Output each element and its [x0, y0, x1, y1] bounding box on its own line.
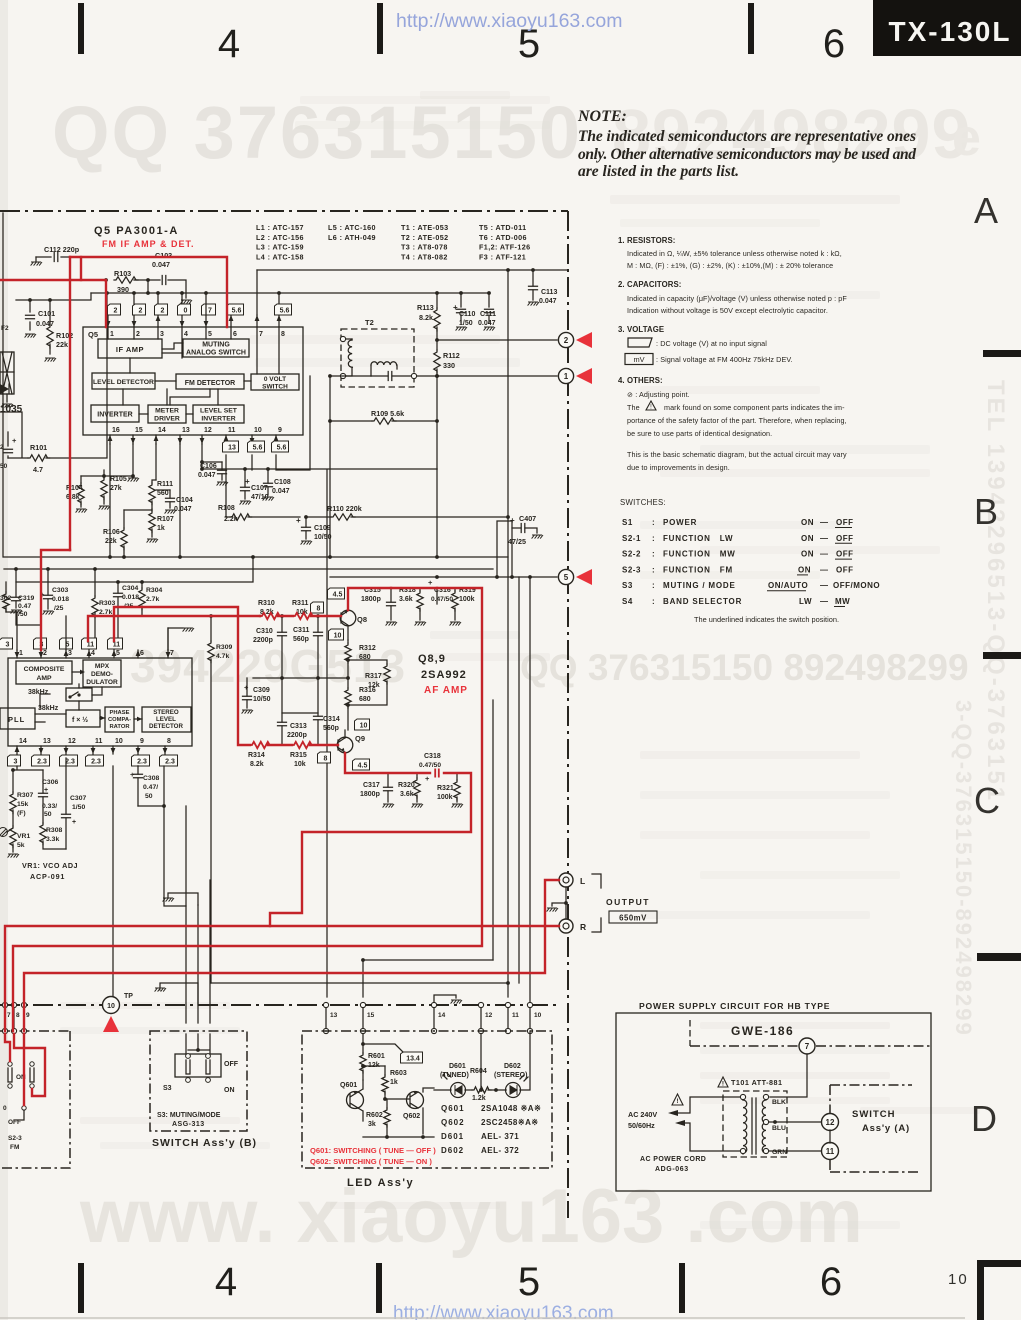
svg-text:BLU: BLU [772, 1125, 786, 1132]
Q5 voltage boxes top [108, 304, 121, 315]
stereo IC outline [8, 658, 192, 746]
functional box f x 1/2 [66, 710, 100, 727]
svg-text:0.047: 0.047 [272, 488, 290, 495]
svg-text:C318: C318 [424, 753, 441, 760]
red wire: input feed y280 [0, 280, 106, 327]
svg-text:Indication without voltage is: Indication without voltage is 50V except… [627, 306, 828, 315]
svg-text:/25: /25 [54, 605, 64, 612]
svg-text:f × ½: f × ½ [72, 716, 88, 724]
T2 primary coil [348, 340, 352, 367]
op-amp U-Q5 PA3001-A IC outline [83, 327, 303, 435]
svg-text:10: 10 [948, 1271, 969, 1288]
primary leads + AC arrows [678, 1097, 740, 1151]
svg-text:5.6: 5.6 [232, 307, 242, 314]
node connector row2 [323, 1028, 328, 1033]
svg-text:R601: R601 [368, 1053, 385, 1060]
svg-text:—: — [820, 565, 829, 574]
svg-text:D601: D601 [449, 1063, 466, 1070]
svg-text:0.47/: 0.47/ [143, 784, 158, 791]
svg-text:GRN: GRN [772, 1149, 787, 1156]
svg-text:10k: 10k [294, 761, 306, 768]
functional box 0 VOLT SWITCH [251, 374, 299, 390]
svg-text:+: + [72, 819, 76, 826]
functional box INVERTER [91, 405, 139, 422]
svg-text:8: 8 [16, 1012, 20, 1019]
wire bus y557 [4, 556, 508, 558]
svg-text:C313: C313 [290, 723, 307, 730]
svg-text:DRIVER: DRIVER [154, 416, 180, 423]
svg-text:TP: TP [124, 993, 133, 1000]
wire conn12 drop into LED [480, 1034, 482, 1090]
wire T2 to border [346, 375, 371, 377]
svg-text:R307: R307 [17, 792, 33, 799]
svg-text:L6 : ATH-049: L6 : ATH-049 [328, 233, 376, 242]
svg-text:2200p: 2200p [287, 732, 307, 739]
Q5 internal connection wires [108, 327, 279, 374]
svg-text:0.047: 0.047 [478, 320, 496, 327]
svg-text:6: 6 [820, 1260, 842, 1304]
wire left page-cut vertical [2, 213, 4, 557]
svg-text:R311: R311 [292, 600, 308, 607]
connector row2 dash-dot y1031 left [0, 1030, 70, 1032]
svg-text:R304: R304 [146, 587, 162, 594]
svg-text:12: 12 [485, 1012, 493, 1019]
wire conn11 stub [507, 983, 509, 997]
svg-text:Q601: SWITCHING ( TUNE — OFF ): Q601: SWITCHING ( TUNE — OFF ) [310, 1146, 436, 1155]
wire left entry y300 [16, 293, 91, 300]
svg-text:FM IF AMP & DET.: FM IF AMP & DET. [102, 239, 195, 249]
svg-text:16: 16 [112, 427, 120, 434]
svg-text:T3 : AT8-078: T3 : AT8-078 [401, 243, 448, 252]
bus y678 [253, 677, 348, 679]
wire x493 rise [492, 700, 494, 960]
svg-text:0.047: 0.047 [174, 506, 192, 513]
svg-text:1800p: 1800p [361, 596, 381, 603]
svg-text:2.7k: 2.7k [146, 596, 159, 603]
node connector 14 row1 [431, 1002, 436, 1007]
svg-text:Q9: Q9 [355, 734, 365, 743]
wire conn15 stub [362, 960, 364, 997]
node circle 11 [822, 1143, 839, 1160]
functional box COMPOSITE AMP [16, 661, 72, 684]
svg-text:www. xiaoyu163 .com: www. xiaoyu163 .com [79, 1174, 863, 1259]
svg-text:R: R [580, 922, 586, 932]
svg-text:!: ! [722, 1081, 724, 1088]
svg-text:27k: 27k [110, 485, 122, 492]
svg-text:DEMO-: DEMO- [91, 671, 113, 678]
svg-text:: DC voltage (V) at no input s: : DC voltage (V) at no input signal [656, 339, 767, 348]
wire conn18 drop [209, 880, 211, 1023]
wire pin12 drop [201, 444, 203, 469]
svg-text:560p: 560p [293, 636, 309, 643]
svg-text:C: C [974, 780, 1000, 821]
svg-text:11: 11 [95, 738, 103, 745]
red arrow at terminal 5 [576, 569, 592, 585]
svg-text:only. Other alternative semico: only. Other alternative semiconductors m… [578, 146, 916, 163]
svg-text:T2: T2 [365, 318, 374, 327]
transformer T101 dashed box [723, 1091, 787, 1157]
svg-text:BAND SELECTOR: BAND SELECTOR [663, 597, 742, 606]
bracket L [592, 874, 601, 888]
voltage box 4.5 at Q9 emitter [353, 759, 370, 770]
svg-text:1/50: 1/50 [72, 804, 85, 811]
svg-text:0.047: 0.047 [539, 298, 557, 305]
wire BLU to circle 12 [769, 1121, 821, 1123]
red triangle at TP [103, 1016, 119, 1032]
node terminal 5 [558, 569, 573, 584]
wire pin9 drop to C308 [137, 765, 139, 767]
svg-text:mV: mV [633, 355, 644, 364]
transformer T2 dashed box [341, 329, 414, 387]
svg-text:F1,2: ATF-126: F1,2: ATF-126 [479, 243, 531, 252]
svg-text:5: 5 [518, 1260, 540, 1304]
wire terminal5 row y577 [330, 576, 557, 578]
svg-text:OFF: OFF [836, 550, 854, 559]
svg-text:TX-130L: TX-130L [889, 16, 1012, 47]
svg-text:0.47/50: 0.47/50 [431, 596, 453, 603]
svg-text:TEL 13942296513-QQ-3763151: TEL 13942296513-QQ-3763151 [982, 380, 1009, 803]
red wire: R310 R311 inline [259, 615, 261, 617]
svg-text:C311: C311 [293, 627, 309, 634]
svg-text:Q8: Q8 [357, 615, 367, 624]
svg-text:(F): (F) [17, 810, 26, 817]
svg-text:8: 8 [167, 738, 171, 745]
svg-text::: : [652, 597, 655, 606]
svg-text:Q601: Q601 [340, 1082, 357, 1089]
svg-text:R321: R321 [437, 785, 454, 792]
ground pin15b [128, 478, 139, 482]
svg-text:VR1: VCO ADJ: VR1: VCO ADJ [22, 861, 78, 870]
svg-text:4: 4 [215, 1260, 237, 1304]
red wire: S2-3 weave upper [14, 1034, 45, 1096]
wire pin16 drop [109, 444, 111, 557]
transistor Q9 2SA992 [337, 737, 353, 753]
svg-text:MUTING: MUTING [202, 342, 230, 349]
svg-text:10/50: 10/50 [253, 696, 271, 703]
T101 core [752, 1098, 756, 1154]
svg-text:2: 2 [114, 307, 118, 314]
top registration ticks [78, 3, 84, 54]
output jack L [559, 873, 573, 887]
svg-text:10: 10 [254, 427, 262, 434]
svg-text:D602: D602 [441, 1146, 464, 1155]
svg-text:1: 1 [110, 331, 114, 338]
adjusting point symbol [0, 828, 8, 837]
svg-text:due to improvements in design.: due to improvements in design. [627, 463, 730, 472]
svg-text:330: 330 [443, 361, 455, 370]
red wire: mpx out pin4 to Q8 base [88, 616, 341, 641]
wire pin11 drop [225, 455, 227, 517]
svg-text:LEVEL SET: LEVEL SET [200, 408, 238, 415]
red wire: x70 vertical [69, 257, 71, 550]
svg-text:7: 7 [805, 1042, 810, 1051]
wire circle12 to circle11 [829, 1130, 831, 1143]
svg-text:L2 : ATC-156: L2 : ATC-156 [256, 233, 304, 242]
stereo voltage boxes bottom [8, 755, 21, 766]
functional box METER DRIVER [148, 405, 186, 423]
svg-text:38kHz: 38kHz [38, 705, 59, 712]
svg-text::: : [652, 550, 655, 559]
svg-text:2.3: 2.3 [91, 758, 101, 765]
svg-text:4.5: 4.5 [333, 591, 343, 598]
svg-text:IF AMP: IF AMP [116, 345, 144, 354]
svg-text:C109: C109 [314, 525, 331, 532]
transistor Q601 [347, 1092, 364, 1109]
svg-text:C314: C314 [323, 716, 340, 723]
svg-text::: : [652, 534, 655, 543]
svg-text:R111: R111 [157, 481, 173, 488]
svg-text:3.3k: 3.3k [46, 836, 59, 843]
node connector 15 row1 [360, 1002, 365, 1007]
red wire: S2-3 weave lower [5, 1034, 10, 1061]
svg-text:6: 6 [823, 22, 845, 66]
LED assy bottom wire [363, 1136, 434, 1138]
border dash-dot right vertical [567, 211, 569, 1218]
svg-text::: : [652, 581, 655, 590]
svg-text:4: 4 [184, 331, 188, 338]
svg-text:—: — [820, 597, 829, 606]
svg-text:9: 9 [140, 738, 144, 745]
wire pin feeds from bus [134, 270, 279, 315]
svg-text:5: 5 [208, 331, 212, 338]
svg-text:13: 13 [182, 427, 190, 434]
svg-text:T101 ATT-881: T101 ATT-881 [731, 1078, 783, 1087]
red switching labels [307, 1143, 457, 1169]
svg-text:47/25: 47/25 [508, 537, 526, 546]
functional box PHASE COMPARATOR [105, 707, 134, 732]
svg-text:1.2k: 1.2k [472, 1095, 486, 1102]
svg-text:10: 10 [360, 722, 368, 729]
svg-text:15: 15 [135, 427, 143, 434]
svg-text:Q601: Q601 [441, 1104, 465, 1113]
wire R104/R105 tie [81, 475, 133, 477]
svg-text:1k: 1k [157, 525, 165, 532]
warning triangle T101 [718, 1077, 728, 1087]
svg-text:R112: R112 [443, 351, 460, 360]
svg-text:560: 560 [157, 490, 169, 497]
svg-text:0.047: 0.047 [36, 319, 54, 328]
svg-text:100k: 100k [459, 596, 475, 603]
svg-text:POWER: POWER [663, 518, 697, 527]
functional box STEREO LEVEL DETECTOR [142, 707, 191, 732]
left edge IF transformer fragment [0, 352, 14, 394]
T2 secondary coil [371, 362, 397, 365]
svg-text:8.2k: 8.2k [250, 761, 264, 768]
svg-text:8: 8 [324, 755, 328, 762]
svg-text:OFF: OFF [836, 565, 854, 574]
svg-text:Q5: Q5 [88, 330, 98, 339]
wire pin10 drop [251, 455, 253, 470]
node connector row2 [431, 1028, 436, 1033]
svg-text:3: 3 [68, 650, 72, 657]
functional box MUTING ANALOG SWITCH [183, 339, 249, 357]
svg-text:R310: R310 [258, 600, 275, 607]
svg-text:be sure to use parts of identi: be sure to use parts of identical design… [627, 429, 772, 438]
node connector row2 [360, 1028, 365, 1033]
node connector 10 row1 [527, 1002, 532, 1007]
svg-text:2: 2 [136, 331, 140, 338]
svg-text:4: 4 [91, 650, 95, 657]
svg-text:PLL: PLL [8, 715, 25, 724]
svg-text:11: 11 [228, 427, 236, 434]
svg-text:MPX: MPX [95, 663, 110, 670]
svg-text:OUTPUT: OUTPUT [606, 897, 650, 907]
svg-text:This is the basic schematic di: This is the basic schematic diagram, but… [627, 450, 847, 459]
svg-text:5.6: 5.6 [253, 444, 263, 451]
wire C112 ground stub [35, 257, 37, 262]
node connector row2 [505, 1028, 510, 1033]
voltage box 4.5 at Q8 emitter [328, 588, 345, 599]
svg-text:Q602: Q602 [441, 1118, 465, 1127]
svg-text:4.7k: 4.7k [216, 653, 229, 660]
svg-text:50: 50 [0, 463, 8, 470]
svg-text:R107: R107 [157, 516, 174, 523]
svg-text:7: 7 [170, 650, 174, 657]
svg-text:R604: R604 [470, 1068, 487, 1075]
margin bar BC [983, 652, 1021, 659]
stereo voltage boxes top [0, 638, 13, 649]
left edge diode fragment [0, 384, 9, 394]
svg-text:C113: C113 [541, 289, 557, 296]
node connector row2 [11, 1028, 16, 1033]
node connector row2 [478, 1028, 483, 1033]
svg-text:SWITCH Ass'y (B): SWITCH Ass'y (B) [152, 1137, 257, 1149]
node connector row2 [21, 1028, 26, 1033]
ghost bleedthrough text [300, 96, 550, 104]
svg-text:mark found on some component p: mark found on some component parts indic… [664, 403, 845, 412]
switch S3 plunger right [206, 1060, 210, 1074]
svg-text:4.5: 4.5 [358, 762, 368, 769]
svg-text:portance of the safety factor: portance of the safety factor of the par… [627, 416, 847, 425]
svg-text:C308: C308 [143, 775, 159, 782]
svg-text::: : [652, 565, 655, 574]
svg-text:2: 2 [139, 307, 143, 314]
svg-text:R103: R103 [114, 269, 131, 278]
functional box MPX DEMODULATOR [83, 660, 121, 687]
svg-text:/50: /50 [18, 611, 28, 618]
svg-text:QQ 376315150 892498299: QQ 376315150 892498299 [520, 647, 969, 688]
svg-text:LW: LW [799, 597, 812, 606]
wire to terminal 2 [437, 339, 557, 341]
svg-text:POWER SUPPLY CIRCUIT FOR HB TY: POWER SUPPLY CIRCUIT FOR HB TYPE [639, 1001, 830, 1011]
ground above bus [159, 989, 161, 991]
svg-text:S4: S4 [622, 597, 633, 606]
svg-text:22k: 22k [56, 340, 68, 349]
svg-text:F3 : ATF-121: F3 : ATF-121 [479, 252, 526, 261]
svg-text:OFF: OFF [836, 534, 854, 543]
wire pin14 drop [155, 444, 157, 480]
svg-text:SWITCH: SWITCH [852, 1109, 895, 1120]
svg-text:10: 10 [334, 632, 342, 639]
red wire: Q8 emitter to L rail [13, 588, 482, 1031]
svg-text:(STEREO): (STEREO) [494, 1072, 527, 1079]
svg-text:R317: R317 [365, 673, 382, 680]
svg-text:PHASE: PHASE [110, 710, 130, 716]
svg-text:C303: C303 [52, 587, 68, 594]
svg-text:+: + [296, 516, 301, 525]
svg-text:8: 8 [281, 331, 285, 338]
svg-text:GWE-186: GWE-186 [731, 1024, 794, 1038]
warning triangle AC [672, 1094, 683, 1105]
svg-text:0: 0 [184, 307, 188, 314]
warning triangle in note [646, 401, 656, 410]
svg-text:S3: MUTING/MODE: S3: MUTING/MODE [157, 1112, 221, 1119]
border dash-dot top [0, 210, 568, 212]
svg-text:2SA992: 2SA992 [421, 669, 467, 681]
node connector 7 row1 [2, 1002, 7, 1007]
svg-text:1k: 1k [390, 1079, 398, 1086]
wire T2 left vertical [329, 376, 331, 421]
svg-text:S3: S3 [163, 1085, 172, 1092]
svg-text:FM: FM [10, 1144, 19, 1151]
red wire: C316 R319 stubs on rail [391, 587, 437, 589]
wire Q8 collector down [347, 626, 349, 640]
svg-text:FUNCTION LW: FUNCTION LW [663, 534, 733, 543]
label 650mV box [609, 911, 657, 923]
connector bus dash-dot y1005 [0, 1004, 556, 1006]
svg-text:4.7: 4.7 [33, 465, 43, 474]
wire bus y569 [4, 568, 493, 570]
functional box FM DETECTOR [176, 374, 244, 389]
dash-dot right of circle 7 [816, 1045, 931, 1047]
svg-text:5.6: 5.6 [277, 444, 287, 451]
svg-text:INVERTER: INVERTER [201, 416, 235, 423]
svg-text:2SA1048 ※A※: 2SA1048 ※A※ [481, 1104, 541, 1113]
svg-text:—: — [820, 581, 829, 590]
wire R109 row [330, 420, 437, 422]
voltage box 10 at Q9 collector [355, 719, 370, 730]
svg-text:2: 2 [564, 336, 569, 345]
svg-text:7: 7 [208, 307, 212, 314]
svg-text:38kHz: 38kHz [28, 689, 49, 696]
S3 plunger left [186, 1060, 190, 1074]
svg-text:Indicated in capacity (μF)/vol: Indicated in capacity (μF)/voltage (V) u… [627, 294, 847, 303]
red wire: R jack line [5, 926, 559, 1031]
svg-text:METER: METER [155, 408, 179, 415]
svg-text:50/60Hz: 50/60Hz [628, 1121, 655, 1130]
svg-text:3. VOLTAGE: 3. VOLTAGE [618, 325, 664, 334]
svg-text:2.3: 2.3 [137, 758, 147, 765]
svg-text:OFF: OFF [224, 1061, 239, 1068]
svg-text:5.6: 5.6 [280, 307, 290, 314]
wire conn13 long vertical [326, 470, 328, 997]
svg-text:10/50: 10/50 [314, 534, 332, 541]
node connector row2 [2, 1028, 7, 1033]
wire pin13 drop [179, 444, 181, 557]
margin bar CD [977, 953, 1021, 961]
svg-text:13: 13 [330, 1012, 338, 1019]
svg-text:3: 3 [14, 758, 18, 765]
T2 tuning capacitor [388, 372, 392, 381]
wire y458 R101 row [8, 293, 107, 458]
svg-text:9: 9 [26, 1012, 30, 1019]
svg-text:D601: D601 [441, 1132, 464, 1141]
LED assy dashed box [302, 1031, 552, 1168]
wire y469 return [202, 468, 437, 470]
wire x519 drop [518, 577, 520, 983]
svg-text:are listed in the parts list.: are listed in the parts list. [578, 163, 739, 180]
svg-text:AEL- 371: AEL- 371 [481, 1132, 519, 1141]
svg-text:VR1: VR1 [17, 833, 30, 840]
svg-text:C307: C307 [70, 795, 86, 802]
wire input row y280 [134, 280, 186, 298]
svg-text:0 VOLT: 0 VOLT [264, 376, 286, 383]
wire x530 drop to connector 10 [529, 577, 531, 1002]
svg-text:14: 14 [438, 1012, 446, 1019]
wire circle7 to BLK [770, 1054, 807, 1097]
svg-text:12: 12 [68, 738, 76, 745]
svg-text:S2-3: S2-3 [8, 1135, 22, 1142]
